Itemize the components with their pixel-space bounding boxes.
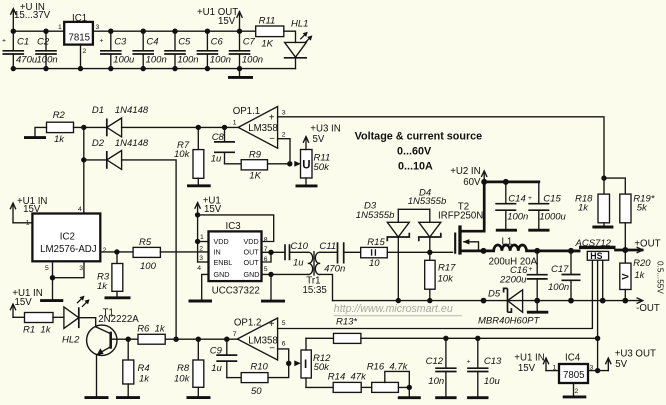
diode D1 1N4148 (92, 105, 149, 137)
svg-text:C17: C17 (551, 264, 569, 275)
svg-text:C11: C11 (319, 241, 336, 252)
wire IC4 pin2 to ground (563, 383, 587, 397)
transistor T2 IRFP250N (438, 182, 484, 255)
wire OP1.1 out (pin3) to R18 node (278, 117, 604, 178)
svg-text:C12: C12 (426, 356, 444, 367)
node +U1 arrow (IC3) (195, 196, 222, 215)
resistor R20 (V) (620, 250, 651, 301)
svg-text:1u: 1u (211, 154, 222, 165)
resistor R4 (116, 339, 150, 397)
svg-text:C6: C6 (211, 36, 224, 47)
svg-text:2: 2 (199, 246, 203, 253)
current sensor ACS712 (575, 238, 616, 261)
svg-text:1u: 1u (293, 258, 304, 269)
svg-text:10k: 10k (174, 373, 191, 384)
svg-text:C3: C3 (114, 36, 127, 47)
LED HL2 (62, 296, 90, 346)
svg-text:7805: 7805 (563, 370, 585, 381)
wire HS pin1 to OP1.2 pin5 (278, 260, 593, 328)
wire IC4 pin3 to +U3 OUT (588, 370, 608, 372)
svg-text:0...10A: 0...10A (398, 161, 433, 173)
transistor T1 2N2222A (85, 307, 140, 397)
svg-text:MBR40H60PT: MBR40H60PT (478, 316, 540, 327)
potentiometer R11 50k (U) (294, 137, 330, 186)
svg-text:D5: D5 (488, 289, 501, 300)
svg-text:HL1: HL1 (291, 18, 308, 29)
junction dots top rail (11, 29, 16, 34)
svg-text:R10: R10 (250, 362, 268, 373)
svg-text:R13*: R13* (336, 317, 357, 328)
wire IC1 pin2 to ground rail (80, 45, 82, 69)
svg-text:100n: 100n (242, 54, 263, 65)
junction dots (-OUT rail) (396, 298, 401, 303)
svg-text:5k: 5k (637, 203, 648, 214)
svg-text:15...37V: 15...37V (14, 10, 51, 21)
svg-text:3: 3 (282, 109, 286, 116)
svg-text:100: 100 (140, 261, 157, 272)
svg-text:100n: 100n (210, 54, 231, 65)
node +U2 IN arrow (450, 166, 487, 188)
svg-text:IC3: IC3 (226, 221, 241, 232)
svg-text:100n: 100n (548, 282, 569, 293)
svg-text:R4: R4 (138, 363, 150, 374)
wire R15 to T2 gate (387, 251, 452, 253)
resistor R8 (174, 339, 211, 397)
svg-text:1u: 1u (211, 363, 222, 374)
wire OP1.2 pin6 to wiper node (278, 349, 289, 363)
junction dots bottom rail (11, 66, 16, 71)
IC3 UCC37322 (197, 221, 268, 296)
svg-text:C4: C4 (146, 36, 158, 47)
svg-text:LM2576-ADJ: LM2576-ADJ (40, 244, 97, 255)
resistor R14 (328, 372, 367, 393)
resistor R15 (361, 237, 388, 269)
svg-text:OP1.2: OP1.2 (234, 318, 261, 329)
junction dots (R13 line) (443, 336, 448, 341)
wire IC3 pin6 tie to pin7 (262, 252, 272, 262)
net label +U IN (14, 2, 51, 21)
svg-text:OUT: OUT (244, 258, 260, 267)
wire IC2 pin5/pin3 to ground (40, 261, 84, 300)
wire IC3 pin7 to C10 (262, 251, 286, 253)
svg-text:1k: 1k (634, 270, 645, 281)
wire R14 to R16 (361, 386, 372, 388)
svg-text:C15: C15 (543, 193, 561, 204)
wire Tr1 secondary top to C11 (320, 251, 337, 253)
svg-text:GND: GND (214, 270, 230, 279)
svg-text:10n: 10n (428, 376, 444, 387)
wire -OUT rail (333, 300, 643, 302)
ground (C16 / -OUT rail) (527, 301, 548, 313)
svg-text:15V: 15V (204, 204, 222, 215)
svg-text:2: 2 (83, 48, 87, 55)
svg-text:1k: 1k (54, 134, 65, 145)
svg-text:1k: 1k (97, 281, 108, 292)
capacitor C10 (285, 241, 309, 268)
wire +OUT rail (571, 249, 642, 253)
svg-text:C1: C1 (17, 36, 29, 47)
svg-text:R20: R20 (633, 258, 651, 269)
svg-text:60V: 60V (463, 177, 481, 188)
svg-text:1N4148: 1N4148 (115, 105, 149, 116)
svg-text:10k: 10k (174, 149, 191, 160)
svg-text:http://www.microsmart.eu: http://www.microsmart.eu (334, 303, 453, 315)
wire +U2 bus (484, 181, 539, 184)
resistor R1 (13, 313, 53, 336)
svg-text:R8: R8 (177, 363, 190, 374)
svg-text:+OUT: +OUT (634, 239, 660, 250)
svg-text:5V: 5V (615, 359, 627, 370)
svg-text:1: 1 (233, 120, 237, 127)
ground (R2) (24, 136, 46, 139)
svg-text:-OUT: -OUT (636, 303, 660, 314)
svg-text:+: + (269, 319, 275, 330)
svg-text:HS: HS (590, 251, 602, 261)
svg-text:R6 1k: R6 1k (137, 323, 166, 334)
wire D3-D4 top bridge (398, 208, 430, 210)
wire top rail right of IC1 (93, 30, 256, 32)
wire FB node vertical to IC2 pin4 (83, 127, 85, 213)
svg-text:1000u: 1000u (539, 211, 566, 222)
svg-text:R17: R17 (438, 263, 456, 274)
node -OUT arrow (636, 298, 660, 314)
diode D5 MBR40H60PT (478, 288, 540, 326)
svg-text:U: U (302, 159, 310, 171)
svg-text:D1: D1 (92, 105, 104, 116)
svg-text:R14 47k: R14 47k (328, 372, 367, 383)
inductor L1 200uH 20A (484, 236, 580, 267)
svg-text:C2: C2 (37, 36, 50, 47)
svg-text:+: + (269, 112, 275, 123)
transformer Tr1 15:35 (303, 252, 327, 296)
svg-text:0.5...55V: 0.5...55V (656, 261, 665, 294)
svg-text:5: 5 (264, 266, 268, 273)
svg-text:HL2: HL2 (62, 335, 80, 346)
op-amp OP1.1 LM358 (233, 106, 286, 148)
svg-text:−: − (269, 134, 275, 145)
svg-text:V: V (621, 273, 632, 280)
svg-text:50k: 50k (314, 162, 331, 173)
capacitor C11 (319, 241, 345, 274)
svg-text:10u: 10u (484, 376, 501, 387)
node +U1 IN arrow (R1) (10, 288, 42, 317)
node +U3 OUT arrow (606, 349, 656, 371)
node +U1 IN arrow (IC4) (514, 352, 548, 374)
net label +U3 IN (R11 pot) (310, 124, 340, 146)
capacitor C4 (132, 31, 166, 68)
svg-text:15V: 15V (218, 16, 236, 27)
svg-text:3: 3 (79, 265, 83, 272)
svg-text:1k: 1k (578, 203, 589, 214)
wire C11 to R15 (344, 251, 361, 253)
resistor R9 (241, 150, 267, 182)
svg-text:3: 3 (96, 24, 100, 31)
resistor R5 (133, 237, 160, 272)
resistor R7 (174, 127, 204, 184)
svg-text:−: − (269, 343, 275, 354)
svg-text:1K: 1K (261, 39, 273, 50)
svg-text:IN: IN (214, 248, 221, 257)
svg-text:+U3 IN: +U3 IN (310, 124, 340, 135)
svg-text:5: 5 (282, 320, 286, 327)
junction dots (OP1.2 row) (126, 337, 131, 342)
ground (R7) (187, 184, 211, 187)
svg-text:7815: 7815 (69, 33, 91, 44)
resistor R13* (334, 317, 361, 344)
wire R12 top to R13 (306, 337, 334, 339)
resistor R6 (137, 323, 166, 344)
svg-text:VDD: VDD (244, 237, 259, 246)
resistor R19* (604, 178, 655, 250)
svg-text:OUT: OUT (244, 248, 260, 257)
svg-text:R9: R9 (249, 150, 262, 161)
wire HL2 to T1 collector (79, 318, 96, 327)
capacitor C17 (548, 251, 581, 301)
net label +U1 OUT (197, 7, 238, 27)
svg-text:ENBL: ENBL (214, 258, 233, 267)
svg-text:470u: 470u (16, 54, 38, 65)
wire R16 to ground (398, 385, 421, 398)
title Voltage & current source (355, 131, 483, 173)
svg-text:+U3 OUT: +U3 OUT (615, 349, 656, 360)
svg-text:C7: C7 (243, 36, 256, 47)
svg-text:C14: C14 (508, 193, 525, 204)
wire D1 to OP1.1 (122, 126, 239, 128)
svg-text:10k: 10k (438, 274, 455, 285)
svg-text:2N2222A: 2N2222A (98, 314, 139, 325)
svg-text:OP1.1: OP1.1 (233, 106, 260, 117)
svg-text:Voltage & current source: Voltage & current source (355, 131, 483, 143)
capacitor C2 (35, 31, 57, 68)
svg-text:R1 1k: R1 1k (23, 325, 52, 336)
wire R12 bottom to R14 (306, 386, 333, 388)
svg-text:1N5355b: 1N5355b (356, 210, 395, 221)
IC2 LM2576-ADJ (26, 206, 107, 272)
svg-text:0...60V: 0...60V (397, 146, 432, 158)
svg-text:5V: 5V (313, 134, 325, 145)
svg-text:R11: R11 (259, 16, 276, 27)
svg-text:+U2 IN: +U2 IN (450, 166, 480, 177)
wire R2 left to ground (35, 127, 47, 136)
wire R1 to HL2 (53, 316, 64, 318)
svg-text:1N4148: 1N4148 (115, 138, 149, 149)
diode D2 1N4148 (92, 138, 149, 170)
svg-text:4: 4 (78, 206, 82, 213)
svg-text:2: 2 (103, 247, 107, 254)
wire R6 to OP1.2 node (165, 338, 237, 340)
wire R10 to wiper node (268, 363, 289, 377)
svg-text:3: 3 (199, 255, 203, 262)
op-amp OP1.2 LM358 (233, 318, 286, 360)
wire Tr1 secondary bottom to -OUT rail (320, 274, 332, 300)
node +U IN arrow (11, 9, 16, 32)
IC1 7815 (58, 13, 100, 55)
svg-text:GND: GND (244, 270, 260, 279)
svg-text:+: + (2, 38, 6, 45)
capacitor C5 (164, 31, 198, 68)
svg-text:15:35: 15:35 (303, 285, 327, 296)
wire R13 to C12/C13/HS line (361, 337, 598, 339)
wire IC3 pin5 to Tr1 (262, 273, 308, 275)
svg-text:C10: C10 (291, 241, 309, 252)
capacitor C7 (229, 31, 263, 68)
capacitor C13 (467, 338, 503, 397)
capacitor C3 (100, 31, 136, 68)
svg-text:1: 1 (200, 234, 204, 241)
svg-text:R2: R2 (53, 110, 66, 121)
wire IC2 pin2 to R5 (100, 251, 133, 253)
svg-text:470n: 470n (324, 263, 345, 274)
wire R5 to IC3 pin2 (160, 251, 208, 253)
svg-text:100u: 100u (113, 54, 135, 65)
capacitor C8 (211, 127, 235, 164)
capacitor C14 (495, 182, 532, 230)
wire +U1 to IC3 pin8 (198, 215, 274, 242)
svg-text:IC1: IC1 (72, 13, 87, 24)
IC4 7805 (553, 353, 594, 395)
wire OP1.1 pin2 to wiper node (278, 139, 290, 164)
svg-text:2200u: 2200u (499, 275, 527, 286)
svg-text:D2: D2 (92, 138, 105, 149)
svg-text:+: + (100, 38, 104, 45)
wire R9 to wiper node (268, 163, 290, 165)
resistor R17 (425, 260, 456, 300)
junction dots (IC3 area) (195, 212, 200, 217)
svg-text:100n: 100n (507, 211, 528, 222)
svg-text:50: 50 (251, 386, 262, 397)
wire top rail left (13, 30, 64, 32)
wire C8 to R9 (225, 163, 242, 165)
capacitor C6 (197, 31, 231, 68)
wire HS pin2 to R13 line and +5V (597, 260, 599, 370)
node +U1 OUT arrow (237, 12, 242, 32)
junction dots (power stage) (427, 250, 432, 255)
wire D2 to current-loop vertical (122, 160, 177, 339)
ground (IC3 pin5 node) (261, 274, 285, 301)
wire to IC4 pin1 (546, 370, 559, 372)
capacitor C12 (426, 338, 457, 397)
svg-text:I: I (304, 359, 307, 371)
junction dots (OP1.1 row) (81, 125, 86, 130)
capacitor C15 (528, 182, 566, 230)
wire bottom rail (13, 68, 295, 70)
wire FB node to D2 (84, 159, 107, 161)
svg-text:6: 6 (282, 341, 286, 348)
svg-text:1N5355b: 1N5355b (408, 196, 447, 207)
zener D3 1N5355b (356, 201, 410, 301)
wire T1 base to R6/R4 node (112, 338, 138, 340)
svg-text:1: 1 (553, 365, 557, 372)
ground (top block) (228, 69, 253, 78)
svg-text:+: + (529, 266, 533, 273)
capacitor C1 (2, 31, 38, 68)
resistor R3 (97, 252, 131, 298)
svg-text:1k: 1k (139, 373, 150, 384)
watermark http://www.microsmart.eu (334, 303, 462, 316)
svg-text:15V: 15V (15, 297, 33, 308)
node +OUT arrow (634, 239, 660, 253)
svg-text:1K: 1K (249, 171, 261, 182)
wire HS pin3 to -OUT rail (602, 260, 604, 300)
resistor R2 (47, 110, 74, 145)
svg-text:15V: 15V (518, 363, 536, 374)
svg-text:LM358: LM358 (248, 123, 278, 134)
svg-text:1: 1 (26, 219, 30, 226)
svg-text:7: 7 (233, 331, 237, 338)
wire IC3 pin4 to ground (189, 274, 213, 301)
wire +U1 to IC3 pin1 and pin3 (198, 215, 209, 262)
svg-text:2: 2 (575, 388, 579, 395)
svg-text:8: 8 (264, 237, 268, 244)
svg-text:R15: R15 (367, 237, 385, 248)
svg-text:1: 1 (58, 24, 62, 31)
potentiometer R12 50k (I) (294, 338, 331, 387)
svg-text:100n: 100n (177, 54, 198, 65)
svg-text:C13: C13 (484, 356, 502, 367)
svg-text:100n: 100n (37, 54, 58, 65)
wire R2 to D1 (74, 126, 107, 128)
svg-text:C8: C8 (212, 132, 225, 143)
svg-text:100n: 100n (146, 54, 167, 65)
resistor R18 (575, 178, 613, 227)
zener D4 1N5355b (408, 187, 447, 260)
svg-text:C9: C9 (210, 346, 223, 357)
LED HL1 (284, 18, 313, 68)
svg-text:IRFP250N: IRFP250N (438, 211, 483, 222)
svg-text:+U1 IN: +U1 IN (514, 352, 544, 363)
wire to IC2 pin1 (13, 222, 32, 224)
node +U1 IN arrow (IC2) (10, 196, 47, 223)
svg-text:R5: R5 (139, 237, 152, 248)
svg-text:+: + (528, 195, 532, 202)
capacitor C9 (210, 339, 238, 377)
capacitor C16 (499, 251, 548, 301)
svg-text:VDD: VDD (214, 237, 229, 246)
wire C9 to R10 (227, 377, 241, 379)
svg-text:IC4: IC4 (565, 353, 581, 364)
junction dots (IC4 out) (595, 368, 600, 373)
svg-text:5: 5 (45, 265, 49, 272)
wire R11 to HL1 (284, 31, 296, 42)
svg-text:2: 2 (282, 131, 286, 138)
svg-text:+: + (467, 358, 471, 365)
svg-text:4: 4 (197, 265, 201, 272)
svg-text:IC2: IC2 (60, 232, 75, 243)
resistor R10 (241, 362, 268, 397)
svg-text:ACS712: ACS712 (575, 238, 612, 249)
resistor R11 (top) (256, 16, 284, 50)
svg-text:UCC37322: UCC37322 (212, 286, 260, 297)
svg-text:C5: C5 (178, 36, 191, 47)
svg-text:10: 10 (369, 258, 380, 269)
svg-text:L1: L1 (502, 236, 513, 247)
resistor R16 (trimmer) (367, 362, 410, 393)
